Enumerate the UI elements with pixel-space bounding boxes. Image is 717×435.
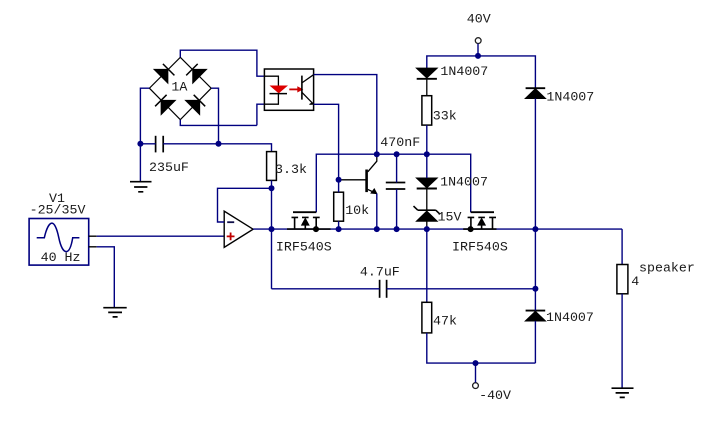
wire opto emitter to base node bbox=[314, 104, 339, 180]
diode D2 1N4007 middle bbox=[417, 178, 438, 189]
wire bridge left vertex down bbox=[140, 88, 149, 182]
mosfet Q1 IRF540S left bbox=[287, 212, 331, 229]
wire bridge right vertex down bbox=[211, 88, 218, 144]
bridge rectifier diamond outline bbox=[149, 57, 211, 119]
svg-text:-40V: -40V bbox=[479, 388, 511, 403]
op-amp plus sign bbox=[227, 233, 235, 241]
source V1 sine waveform bbox=[37, 223, 80, 252]
optocoupler LED bbox=[264, 76, 288, 104]
supply 40V terminal bbox=[475, 38, 481, 44]
top rail wire bbox=[316, 154, 470, 212]
svg-text:1A: 1A bbox=[171, 80, 187, 95]
resistor R 33k bbox=[422, 96, 432, 125]
diode D1 1N4007 top-left bbox=[417, 68, 438, 79]
wire feedback to op-amp inverting input bbox=[218, 188, 272, 222]
optocoupler U2 box bbox=[264, 69, 313, 110]
resistor R 10k bbox=[334, 192, 344, 221]
svg-text:1N4007: 1N4007 bbox=[440, 64, 488, 79]
wire D1 to 33k bbox=[426, 79, 428, 96]
wire bridge top to opto anode bbox=[180, 50, 264, 76]
bridge diode D-TL bbox=[154, 64, 174, 83]
mosfet Q3 IRF540S right bbox=[463, 212, 496, 229]
optocoupler red arrow bbox=[289, 86, 303, 92]
wire V1 minus elbow bbox=[97, 247, 115, 308]
wire 470nF top stub bbox=[396, 154, 398, 182]
wire 10k top stub bbox=[338, 180, 340, 192]
ground under V1 bbox=[103, 308, 126, 317]
wire 40V rail bbox=[427, 56, 536, 89]
wire 47k bottom to -40V rail bbox=[427, 333, 536, 363]
wire output to speaker bbox=[621, 229, 623, 264]
wire D2 to zener bbox=[426, 189, 428, 211]
capacitor 235uF bbox=[156, 136, 164, 153]
svg-text:IRF540S: IRF540S bbox=[452, 239, 508, 254]
svg-text:470nF: 470nF bbox=[380, 135, 420, 150]
svg-text:1N4007: 1N4007 bbox=[440, 174, 488, 189]
wire -40V stub bbox=[475, 363, 477, 383]
diode D4 1N4007 top-right bbox=[525, 88, 545, 98]
svg-text:15V: 15V bbox=[438, 209, 462, 224]
wire rail to D2 bbox=[426, 154, 428, 178]
svg-text:speaker: speaker bbox=[639, 261, 695, 276]
wire 3.3k bottom to feedback node bbox=[271, 180, 273, 188]
wire output node down to D5 bbox=[534, 229, 536, 310]
op-amp minus sign bbox=[227, 221, 234, 223]
supply -40V terminal bbox=[473, 383, 479, 389]
wire D4 down to output node bbox=[534, 98, 536, 229]
wire opto collector to rail bbox=[314, 75, 377, 155]
capacitor 4.7uF bbox=[380, 280, 387, 298]
svg-text:4: 4 bbox=[631, 274, 639, 289]
resistor R 3.3k bbox=[267, 152, 277, 181]
svg-text:1N4007: 1N4007 bbox=[546, 89, 594, 104]
wire 4.7uF row bbox=[272, 288, 536, 290]
svg-text:-25/35V: -25/35V bbox=[30, 202, 86, 217]
resistor R 47k bbox=[422, 302, 432, 333]
bridge diode D-BR bbox=[186, 95, 206, 115]
wire output rail bbox=[253, 228, 622, 230]
bridge diode D-BL bbox=[155, 95, 175, 115]
optocoupler phototransistor bbox=[302, 75, 314, 105]
source V1 box bbox=[29, 219, 89, 266]
ground under speaker bbox=[612, 388, 634, 397]
wire D5 to -40V rail bbox=[534, 321, 536, 363]
svg-text:IRF540S: IRF540S bbox=[276, 239, 332, 254]
wire V1 plus to op-amp bbox=[97, 235, 225, 237]
ground under 235uF node bbox=[130, 182, 152, 192]
speaker element bbox=[617, 265, 628, 294]
svg-text:3.3k: 3.3k bbox=[275, 162, 307, 177]
bridge diode D-TR bbox=[186, 64, 206, 83]
svg-text:10k: 10k bbox=[345, 203, 369, 218]
wire feedback node down to output node bbox=[271, 188, 273, 288]
op-amp U1 bbox=[224, 211, 253, 247]
wire zener node down through crossing to 47k bbox=[426, 229, 428, 302]
source V1 pin stubs bbox=[89, 236, 97, 247]
svg-text:4.7uF: 4.7uF bbox=[360, 265, 400, 280]
svg-text:40V: 40V bbox=[467, 11, 491, 26]
wire 10k bottom stub bbox=[338, 221, 340, 229]
transistor Q2 bbox=[339, 154, 377, 229]
wire 470nF bottom stub bbox=[396, 189, 398, 229]
svg-text:40 Hz: 40 Hz bbox=[41, 250, 81, 265]
svg-text:1N4007: 1N4007 bbox=[546, 310, 594, 325]
wire speaker bottom to ground bbox=[621, 294, 623, 388]
svg-text:235uF: 235uF bbox=[149, 160, 189, 175]
wire bridge bottom to opto cathode bbox=[180, 104, 264, 125]
svg-text:47k: 47k bbox=[433, 314, 457, 329]
capacitor 470nF bbox=[386, 183, 406, 190]
wire cap node row bbox=[140, 144, 271, 152]
svg-text:33k: 33k bbox=[433, 109, 457, 124]
diode D5 1N4007 bottom bbox=[525, 311, 545, 321]
wire 33k bottom to rail bbox=[426, 125, 428, 154]
wire 40V stub bbox=[477, 44, 479, 56]
wire zener bottom to rail bbox=[426, 221, 428, 229]
zener D3 15V bbox=[414, 206, 441, 221]
